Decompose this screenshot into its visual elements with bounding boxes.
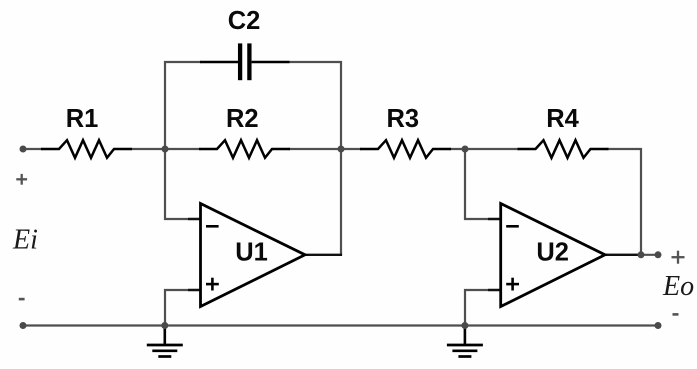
wire: U2 noninverting input stub	[488, 289, 501, 291]
wire: U2 output stub	[605, 254, 641, 256]
node C	[462, 146, 469, 153]
wire: node C down to U2 inverting input	[465, 149, 501, 219]
wire: input to R1	[23, 148, 43, 150]
wire: U1 output to feedback corner	[305, 254, 342, 256]
wire: node B down to U1 output	[340, 149, 342, 255]
node A	[162, 146, 169, 153]
wire: bottom ground rail	[23, 324, 658, 326]
wire: R4 to right feedback corner	[607, 149, 642, 255]
svg-text:Eo: Eo	[662, 271, 694, 302]
node: Eo + output terminal	[655, 251, 662, 258]
wire: node B to R3	[340, 148, 362, 150]
svg-text:C2: C2	[228, 7, 261, 35]
wire: U1 noninverting input to ground rail	[165, 290, 201, 326]
junction: U1 ground	[161, 322, 168, 329]
wire: node A up to C2 top rail	[165, 62, 201, 149]
resistor R4	[518, 140, 609, 158]
op-amp U1	[201, 204, 306, 307]
ground under U1	[147, 326, 183, 357]
wire: U2 inverting input stub	[488, 218, 501, 220]
ground under U2	[447, 326, 483, 357]
label: output plus polarity	[672, 256, 685, 258]
node: Ei + input terminal	[20, 146, 27, 153]
junction: R4 feedback to output	[638, 251, 645, 258]
wire: node A to R2	[164, 148, 201, 150]
wire: C2 to node B vertical	[289, 62, 341, 149]
svg-text:R2: R2	[226, 105, 259, 133]
op-amp U2	[501, 204, 605, 307]
svg-text:U1: U1	[235, 239, 268, 267]
junction: U2 ground	[461, 322, 468, 329]
wire: R1 to node A	[130, 148, 166, 150]
wire: U1 inverting input stub	[188, 218, 201, 220]
wire: U1 noninverting input stub	[188, 289, 201, 291]
wire: R2 to node B	[288, 148, 342, 150]
node B	[338, 146, 345, 153]
node: Eo - terminal	[655, 322, 662, 329]
resistor R2	[199, 140, 290, 158]
node: Ei - terminal	[20, 322, 27, 329]
svg-text:R3: R3	[386, 105, 419, 133]
label: output minus polarity	[673, 313, 679, 316]
wire: R3 to node C	[449, 148, 466, 150]
wire: node C to R4	[464, 148, 519, 150]
wire: U2 noninverting input to ground rail	[465, 290, 501, 326]
resistor R3	[360, 140, 451, 158]
wire: U2 output to Eo terminal	[605, 254, 658, 256]
svg-text:R4: R4	[546, 105, 579, 133]
svg-text:U2: U2	[536, 239, 569, 267]
resistor R1	[41, 140, 132, 158]
label: input plus polarity	[16, 178, 27, 180]
capacitor C2	[200, 43, 290, 80]
label: input minus polarity	[19, 298, 25, 301]
svg-text:R1: R1	[66, 105, 99, 133]
svg-text:Ei: Ei	[12, 224, 38, 255]
wire: node A down to U1 inverting input	[165, 149, 201, 219]
